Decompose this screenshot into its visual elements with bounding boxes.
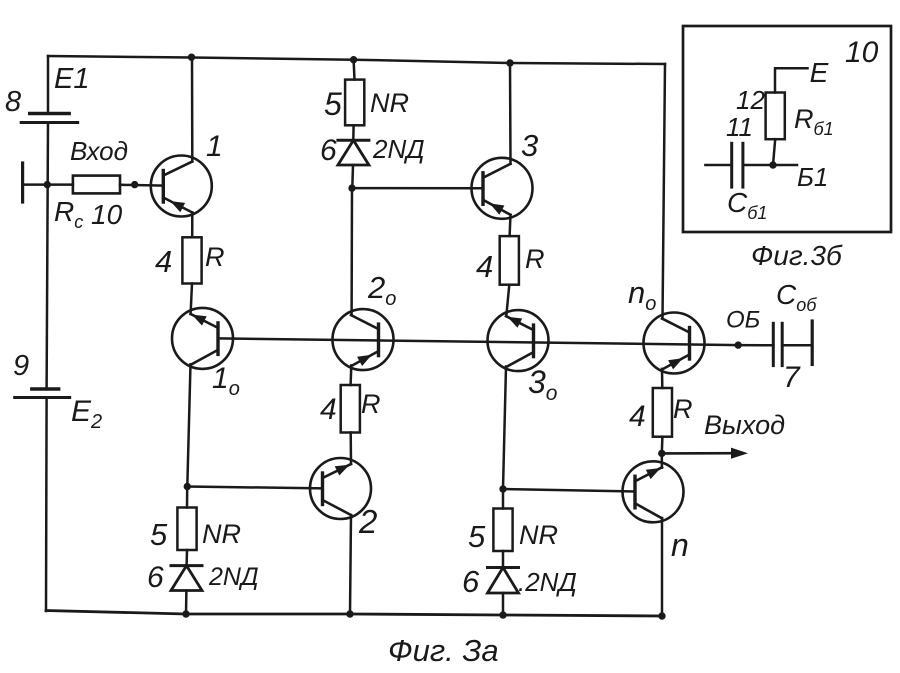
wire emitter 2 up to resistor 4R <box>349 433 352 465</box>
svg-text:2NД: 2NД <box>372 134 425 164</box>
node top rail / 5NR <box>350 56 357 63</box>
node OB <box>735 341 742 348</box>
svg-text:4: 4 <box>476 249 493 284</box>
wire junction to resistor 5NR <box>186 487 189 508</box>
resistor Rc 10 <box>73 176 120 194</box>
svg-text:4: 4 <box>320 393 337 426</box>
wire 2o top to diode junction <box>350 188 353 315</box>
resistor 5NR (top) <box>345 80 364 126</box>
node junction 3o / base n <box>499 485 506 492</box>
transistor no <box>644 313 705 374</box>
svg-text:4: 4 <box>155 244 172 279</box>
diode 6 2ND (lower left) <box>171 566 202 591</box>
wire top rail E1 bus <box>48 56 665 64</box>
svg-text:Выход: Выход <box>704 410 785 440</box>
svg-text:n: n <box>671 527 689 563</box>
svg-text:6: 6 <box>320 134 337 167</box>
svg-text:6: 6 <box>147 561 164 594</box>
svg-text:4: 4 <box>629 400 646 433</box>
svg-text:12: 12 <box>736 85 765 115</box>
wire resistor to diode <box>502 551 505 568</box>
transistor 1 <box>151 156 212 217</box>
resistor 4R (under 3) <box>500 236 519 285</box>
svg-text:ОБ: ОБ <box>726 307 760 334</box>
wire junction to base of 2 <box>187 487 322 489</box>
transistor 2o <box>333 309 394 370</box>
output arrow <box>662 448 748 459</box>
svg-text:9: 9 <box>13 350 29 382</box>
wire resistor 10 to base of 1 <box>120 184 163 187</box>
svg-text:R: R <box>205 242 225 272</box>
node output <box>658 450 665 457</box>
node diode junction <box>348 184 355 191</box>
wire no bottom to resistor 4R <box>661 369 664 388</box>
wire diode to bottom rail <box>185 591 188 615</box>
input terminal bar <box>21 163 24 202</box>
wire bottom rail <box>46 611 662 617</box>
node junction 1o / base 2 <box>184 483 191 490</box>
resistor 4R (under 1) <box>182 237 201 283</box>
wire junction to resistor 5NR <box>502 489 505 509</box>
svg-text:Б1: Б1 <box>797 162 828 192</box>
diode 6 2ND (top) <box>338 140 369 165</box>
wire diode to resistor 5NR <box>352 125 355 140</box>
wire left rail battery 9 to bottom <box>45 398 48 612</box>
node bottom rail right <box>499 611 506 618</box>
wire junction to base of 3 <box>352 187 483 190</box>
svg-text:Вход: Вход <box>70 136 128 166</box>
svg-text:.2NД: .2NД <box>518 567 577 597</box>
wire OB to capacitor Cob <box>738 344 773 347</box>
resistor 4R (under no) <box>653 388 672 437</box>
wire input to resistor 10 <box>23 183 73 186</box>
output terminal bar 7 <box>811 321 814 364</box>
wire junction to base of n <box>503 489 635 492</box>
wire common base bus <box>218 338 738 345</box>
svg-text:5: 5 <box>468 519 486 554</box>
node input junction <box>44 181 51 188</box>
wire capacitor left lead <box>705 164 731 167</box>
svg-text:2: 2 <box>358 503 377 540</box>
node bottom rail mid <box>346 610 353 617</box>
wire collector n to bottom rail <box>661 518 664 616</box>
node bottom rail end <box>658 612 665 619</box>
transistor n <box>623 461 684 522</box>
node Б1 <box>769 161 776 168</box>
svg-text:Фиг.3б: Фиг.3б <box>751 240 843 271</box>
svg-text:R: R <box>361 389 381 419</box>
svg-text:3: 3 <box>521 128 538 163</box>
svg-text:5: 5 <box>150 517 168 552</box>
svg-text:2NД: 2NД <box>208 563 259 591</box>
wire output node to transistor n <box>661 453 664 467</box>
wire right drop to transistor no collector <box>663 64 666 319</box>
wire resistor to output node <box>661 437 664 454</box>
transistor 3 <box>472 158 533 219</box>
transistor 3o <box>488 310 549 371</box>
transistor 1o <box>172 308 233 369</box>
transistor 2 <box>310 458 371 519</box>
svg-text:6: 6 <box>462 564 480 599</box>
wire resistor to diode 6 <box>185 550 188 566</box>
wire resistor to 3o <box>506 285 509 316</box>
svg-text:5: 5 <box>324 86 342 122</box>
capacitor Сб1 <box>732 143 743 187</box>
wire Rб1 to node Б1 <box>773 139 775 165</box>
node bottom rail left <box>182 610 189 617</box>
node top rail / collector 3 <box>506 59 513 66</box>
resistor Rб1 (inset) <box>766 93 785 140</box>
wire collector 2 to bottom rail <box>350 515 351 614</box>
wire resistor 4R to transistor 1o <box>191 284 192 314</box>
svg-text:11: 11 <box>726 112 753 142</box>
svg-text:10: 10 <box>845 36 879 69</box>
wire 1o bottom to junction <box>187 364 190 486</box>
wire emitter 1 to resistor 4R <box>191 213 194 238</box>
resistor 5NR (lower left) <box>177 508 196 551</box>
wire 3o bottom to junction <box>503 367 506 490</box>
capacitor Cob <box>773 323 782 365</box>
resistor 4R (above 2) <box>341 385 360 433</box>
wire capacitor to Б1 label <box>743 164 797 167</box>
wire emitter 3 to resistor 4R <box>508 215 511 236</box>
svg-text:R: R <box>525 244 545 274</box>
wire E lead <box>775 68 808 92</box>
diode 6 2ND (lower right) <box>488 568 519 594</box>
wire resistor to top rail <box>352 60 355 80</box>
wire left rail battery 8 to battery 9 <box>47 123 48 390</box>
wire diode to bottom rail <box>502 593 505 615</box>
svg-text:8: 8 <box>5 86 21 118</box>
wire capacitor to output terminal <box>782 344 812 347</box>
svg-text:Е: Е <box>810 57 829 88</box>
svg-text:NR: NR <box>370 88 409 118</box>
svg-text:NR: NR <box>202 519 241 549</box>
wire resistor to 2o bottom <box>349 365 352 385</box>
inset box Фиг.3б <box>683 26 891 232</box>
svg-text:10: 10 <box>91 199 123 230</box>
wire left rail segment above battery 8 <box>47 56 50 114</box>
node base of transistor 1 <box>131 181 138 188</box>
svg-text:Фиг. За: Фиг. За <box>388 633 499 668</box>
node top rail / collector 1 <box>188 54 195 61</box>
battery 8 E1 <box>21 114 77 123</box>
wire collector 1 to top rail <box>191 58 194 162</box>
resistor 5NR (lower right) <box>493 509 512 552</box>
wire junction up to diode 6 <box>351 165 354 188</box>
svg-text:1: 1 <box>206 130 223 163</box>
svg-text:NR: NR <box>519 520 558 550</box>
wire collector 3 to top rail <box>509 63 512 164</box>
battery 9 E2 <box>15 389 70 398</box>
svg-text:R: R <box>673 394 693 424</box>
svg-text:7: 7 <box>783 361 801 394</box>
svg-text:Е1: Е1 <box>54 63 89 95</box>
